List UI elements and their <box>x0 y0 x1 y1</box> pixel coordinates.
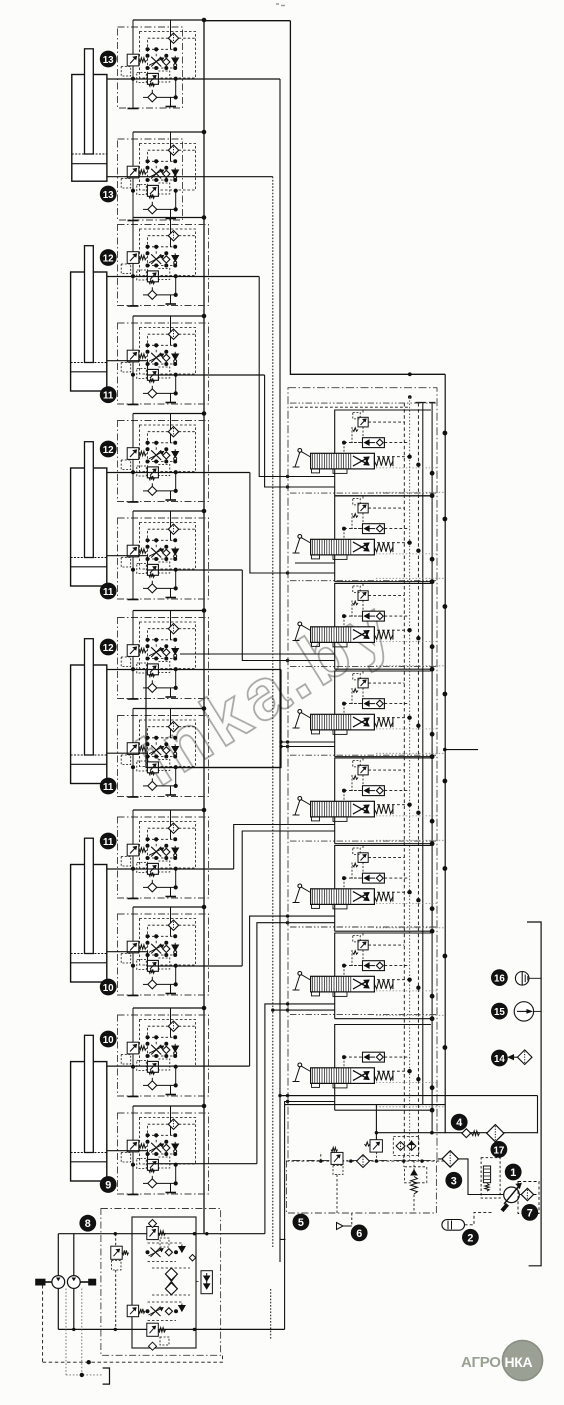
item 1 hand pump <box>501 1184 522 1213</box>
watermark inka.by <box>126 585 408 802</box>
wire cylinder tap 9 lower pair6 <box>107 1151 148 1160</box>
wire P5B to section5 <box>242 831 335 966</box>
cylinder pair3 <box>71 442 107 586</box>
svg-text:1: 1 <box>510 1167 516 1179</box>
svg-text:10: 10 <box>103 1035 114 1046</box>
svg-text:16: 16 <box>494 974 505 985</box>
valve block 9 lower pair6 <box>118 1104 209 1194</box>
cylinder pair5 <box>71 838 107 982</box>
wire out 13 upper pair1 <box>107 78 280 80</box>
wire bus vertical left <box>203 21 205 1234</box>
distributor section 1 <box>293 410 447 498</box>
distributor section 6 <box>293 846 447 934</box>
wire P1B dotted drop to section7 <box>272 177 274 1247</box>
wire out 11 lower pair2 <box>147 374 264 376</box>
wire P6B to section6 <box>257 923 335 1164</box>
item 17 coupler diamond <box>487 1125 504 1142</box>
svg-text:4: 4 <box>456 1117 462 1129</box>
dashed line top inside <box>290 406 410 408</box>
distributor section 2 <box>293 496 447 584</box>
label 11 <box>100 386 117 403</box>
wire section2 port1 stub <box>295 562 335 564</box>
wire P3A to section2 <box>250 473 335 574</box>
pump vertical lines <box>57 1234 59 1330</box>
inlet check pair box <box>393 1137 419 1156</box>
tank symbol <box>103 1368 110 1384</box>
distributor section 3 <box>293 584 447 672</box>
wire P1A drop to section8 <box>280 79 335 1262</box>
pump block relief left <box>111 1234 129 1330</box>
valve block 13 lower pair1 <box>118 130 206 220</box>
wire pump block to section7 <box>265 1004 335 1234</box>
label 3 <box>445 1172 462 1189</box>
svg-text:12: 12 <box>103 643 114 654</box>
wire pump bottom <box>58 1328 284 1330</box>
pump block center diamonds <box>152 1268 190 1295</box>
pump 1 <box>52 1276 65 1289</box>
wire out 10 upper pair6 <box>107 1065 250 1067</box>
distributor outer frame right edge <box>444 374 446 1133</box>
valve block 12 upper pair2 <box>118 216 209 306</box>
wire P2B to section1 <box>265 375 335 487</box>
wire section4 port2 <box>281 746 335 748</box>
inlet main dashed line <box>286 1160 445 1162</box>
legend item 16 <box>491 969 508 986</box>
label 9 <box>100 1176 117 1193</box>
label 4 <box>451 1114 468 1131</box>
inlet unload valve <box>365 1105 383 1162</box>
pump unit block 8 dash-dot box <box>101 1209 221 1356</box>
label 8 <box>79 1215 96 1232</box>
svg-text:3: 3 <box>451 1175 457 1187</box>
distributor section 4 <box>293 671 447 759</box>
wire bus right to distributor <box>290 21 445 375</box>
label 2 <box>462 1229 479 1246</box>
drive shaft couplings <box>36 1279 96 1285</box>
pump block flow valve right <box>196 1271 212 1294</box>
pump 2 <box>67 1276 80 1289</box>
valve block 11 upper pair5 <box>118 808 209 898</box>
wire upper long to coupler <box>280 1095 538 1097</box>
valve block 10 lower pair5 <box>118 905 209 995</box>
svg-text:7: 7 <box>527 1207 533 1219</box>
pump block relief bottom <box>147 1323 169 1350</box>
svg-text:2: 2 <box>467 1232 473 1244</box>
svg-text:10: 10 <box>103 983 114 994</box>
wire cylinder tap 11 lower pair4 <box>107 753 148 762</box>
label 12 <box>100 441 117 458</box>
label 12 <box>100 639 117 656</box>
svg-text:12: 12 <box>103 254 114 265</box>
svg-text:9: 9 <box>105 1180 111 1192</box>
svg-text:15: 15 <box>494 1007 505 1018</box>
svg-text:12: 12 <box>103 445 114 456</box>
label 5 <box>293 1214 310 1231</box>
svg-text:17: 17 <box>493 1145 504 1156</box>
cylinder pair6 <box>71 1035 107 1181</box>
distributor section 7 <box>293 933 447 1021</box>
svg-text:6: 6 <box>356 1228 362 1240</box>
label 1 <box>505 1164 522 1181</box>
bundle top caps <box>415 402 435 404</box>
valve block 11 lower pair4 <box>118 707 209 797</box>
distributor section 8 <box>293 1025 447 1113</box>
item 2 accumulator <box>442 1212 493 1230</box>
inlet drain dashes <box>321 1152 414 1213</box>
inlet filter lower <box>405 1161 427 1194</box>
svg-text:11: 11 <box>103 391 114 402</box>
label 11 <box>100 583 117 600</box>
valve block 11 lower pair3 <box>118 509 209 599</box>
legend item 15 <box>491 1003 508 1020</box>
wire out 11 lower pair3 <box>147 569 242 571</box>
valve block 12 upper pair4 <box>118 609 209 699</box>
label 10 <box>100 979 117 996</box>
item 1 control valve <box>481 1158 500 1198</box>
wire pump top <box>58 1233 265 1235</box>
svg-text:8: 8 <box>85 1218 91 1230</box>
svg-text:13: 13 <box>103 55 114 66</box>
svg-text:5: 5 <box>298 1217 304 1229</box>
wire P4A upper tap to section3 <box>180 653 335 655</box>
wire P3B to section3 <box>242 570 334 661</box>
svg-text:11: 11 <box>103 782 114 793</box>
wire P2A to section1 <box>259 277 335 477</box>
label 11 <box>100 833 117 850</box>
wire cylinder tap 11 lower pair2 <box>107 361 148 370</box>
svg-text:НКА: НКА <box>505 1354 533 1370</box>
pump block throttle row upper <box>146 1243 196 1262</box>
svg-text:11: 11 <box>103 837 114 848</box>
svg-text:14: 14 <box>494 1054 505 1065</box>
label 6 <box>351 1225 368 1242</box>
distributor dash-dot enclosure <box>288 388 437 1161</box>
label 17 <box>491 1141 508 1158</box>
wire cylinder tap 10 lower pair5 <box>107 952 148 961</box>
pump block throttle row lower <box>127 1302 185 1321</box>
section separators <box>290 402 437 404</box>
item 6 drain valve <box>337 1213 352 1230</box>
wire out 11 lower pair4 <box>147 767 281 769</box>
wire top bus <box>204 20 290 22</box>
svg-text:11: 11 <box>103 587 114 598</box>
wire out 11 upper pair5 <box>107 868 234 870</box>
wire P6A to section6 <box>250 916 335 1066</box>
legend item 14 <box>491 1050 508 1067</box>
valve block 11 lower pair2 <box>118 314 209 404</box>
valve block 10 upper pair6 <box>118 1006 209 1096</box>
wire cylinder tap 11 lower pair3 <box>107 556 148 565</box>
wire section4 port1 <box>281 741 335 743</box>
stub wire right margin <box>445 749 478 751</box>
item 7 coupler <box>521 1188 533 1200</box>
small gray mark top <box>276 4 285 6</box>
wire out 12 upper pair3 <box>107 472 250 474</box>
svg-text:АГРО: АГРО <box>461 1354 501 1371</box>
wire P5A to section5 <box>234 825 335 870</box>
wire out 13 lower pair1 <box>107 176 273 178</box>
distributor section 5 <box>293 758 447 846</box>
wire loop pair4 <box>146 670 281 768</box>
cylinder pair1 <box>72 49 107 181</box>
legend bracket <box>527 922 541 1266</box>
label 13 <box>100 51 117 68</box>
item 3 coupler diamond <box>442 1151 458 1167</box>
label 12 <box>100 249 117 266</box>
drain lines pumps <box>43 1285 223 1377</box>
pump unit inner box <box>132 1217 196 1348</box>
cylinder pair4 <box>71 639 107 784</box>
wire item4 line <box>376 1132 538 1134</box>
wire item3 <box>438 1159 504 1195</box>
cylinder pair2 <box>71 246 107 391</box>
wire right link vertical <box>537 1096 539 1134</box>
wire inlet top <box>285 1104 446 1106</box>
logo agroinka <box>461 1340 543 1382</box>
valve block 13 upper pair1 <box>118 18 206 108</box>
wire out 10 lower pair5 <box>147 965 242 967</box>
item 4 check valve <box>462 1129 480 1138</box>
svg-text:13: 13 <box>103 190 114 201</box>
wire out 12 upper pair2 <box>107 276 259 278</box>
wire out 9 lower pair6 <box>147 1163 257 1165</box>
inlet check diamond <box>357 1155 370 1168</box>
pilot line bundle <box>403 403 405 1161</box>
label 10 <box>100 1031 117 1048</box>
label 7 <box>521 1204 538 1221</box>
valve block 12 upper pair3 <box>118 412 209 502</box>
wire pump bottom to section8 <box>285 1102 335 1330</box>
wire out 12 upper pair4 <box>107 669 281 671</box>
pump block relief top <box>147 1220 169 1248</box>
inlet relief valve <box>331 1148 343 1175</box>
label 13 <box>100 186 117 203</box>
inlet section dash-dot box <box>286 1161 436 1214</box>
label 11 <box>100 778 117 795</box>
